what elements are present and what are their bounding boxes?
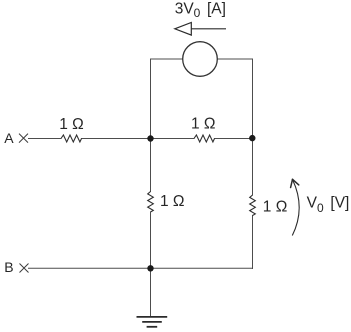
svg-text:A: A (4, 130, 14, 146)
svg-text:1 Ω: 1 Ω (191, 116, 216, 133)
svg-text:1 Ω: 1 Ω (160, 193, 185, 210)
svg-text:1 Ω: 1 Ω (59, 116, 84, 133)
svg-text:[A]: [A] (207, 0, 226, 17)
svg-text:V: V (307, 194, 318, 211)
svg-text:B: B (4, 259, 13, 275)
svg-text:0: 0 (317, 201, 324, 215)
svg-text:1 Ω: 1 Ω (263, 198, 288, 215)
svg-text:0: 0 (194, 6, 201, 20)
svg-text:[V]: [V] (330, 194, 349, 211)
svg-text:3V: 3V (175, 0, 195, 17)
